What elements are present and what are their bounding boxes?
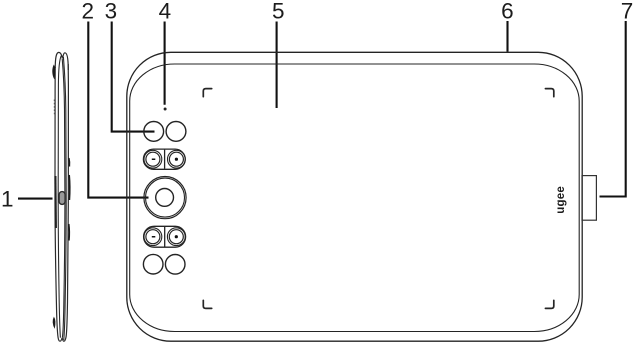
- lower pill minus mark: [152, 236, 156, 238]
- svg-text:3: 3: [105, 0, 118, 24]
- leader line 4: [164, 22, 166, 105]
- side view: left inner edge: [58, 56, 61, 338]
- dial inner circle: [156, 189, 174, 207]
- upper pill right button ring: [168, 150, 186, 168]
- lower pill divider: [164, 227, 166, 247]
- side view: power button dark blob top: [52, 65, 55, 80]
- side view: bottom cap notch: [60, 338, 64, 341]
- leader line 3: [112, 22, 155, 132]
- lower pill dot mark: [175, 235, 178, 238]
- leader line 1: [18, 198, 53, 200]
- lower pill right button inner circle: [169, 230, 183, 244]
- svg-text:6: 6: [501, 0, 514, 23]
- active area bracket top-right: [545, 89, 553, 97]
- upper pill minus mark: [152, 159, 156, 161]
- side view: right edge tick 2: [68, 175, 71, 200]
- side view: top cap lobe 1: [55, 52, 62, 68]
- lower pill left button ring: [144, 228, 162, 246]
- lower pill key group outline: [144, 226, 186, 247]
- leader line 6: [506, 21, 508, 52]
- side view: right edge tick 3: [68, 224, 71, 241]
- svg-text:2: 2: [82, 0, 95, 24]
- upper pill left button ring: [144, 150, 162, 168]
- leader line 2: [88, 22, 148, 198]
- leader line 5: [276, 22, 278, 109]
- active area bracket bottom-left: [203, 300, 211, 308]
- side view: thick edge segment left-middle: [54, 176, 57, 228]
- svg-text:5: 5: [272, 0, 285, 24]
- active area bracket top-left: [203, 89, 211, 97]
- express key circle top-left (pointed by 3): [144, 121, 164, 141]
- express key circle bottom-left: [143, 254, 163, 274]
- upper pill right button inner circle: [169, 152, 183, 166]
- dial outer ring (pointed by 2): [144, 177, 186, 219]
- side view: left outer edge: [55, 67, 60, 341]
- tablet top-face inner outline: [130, 64, 580, 332]
- side view: center seam left line: [62, 59, 65, 338]
- indicator dot (pointed by 4): [164, 108, 167, 111]
- svg-text:4: 4: [159, 0, 172, 24]
- side view: right outer edge: [64, 64, 68, 341]
- dial second ring: [146, 178, 185, 217]
- side view: top cap lobe 2: [63, 53, 68, 70]
- svg-text:7: 7: [621, 0, 634, 23]
- side view: usb-c port (pointed by 1): [59, 192, 65, 205]
- side view: right edge tick 1: [68, 158, 71, 167]
- upper pill left button inner circle: [146, 152, 160, 166]
- lower pill left button inner circle: [146, 230, 160, 244]
- upper pill dot mark: [175, 158, 178, 161]
- lower pill right button ring: [167, 228, 185, 246]
- express key circle top-right: [166, 121, 186, 141]
- leader line 7: [600, 21, 626, 197]
- active area bracket bottom-right: [545, 300, 553, 308]
- tablet outer outline: [127, 52, 582, 341]
- svg-text:ugee: ugee: [555, 186, 567, 214]
- svg-text:1: 1: [1, 187, 14, 212]
- upper pill key group outline: [143, 149, 185, 169]
- side view: center seam right line: [63, 57, 66, 340]
- express key circle bottom-right: [165, 254, 185, 274]
- side switch button (pointed by 7): [582, 176, 596, 221]
- side view: hatch marks upper left: [53, 100, 55, 117]
- upper pill divider: [164, 150, 166, 169]
- side view: dark blob bottom: [53, 317, 56, 329]
